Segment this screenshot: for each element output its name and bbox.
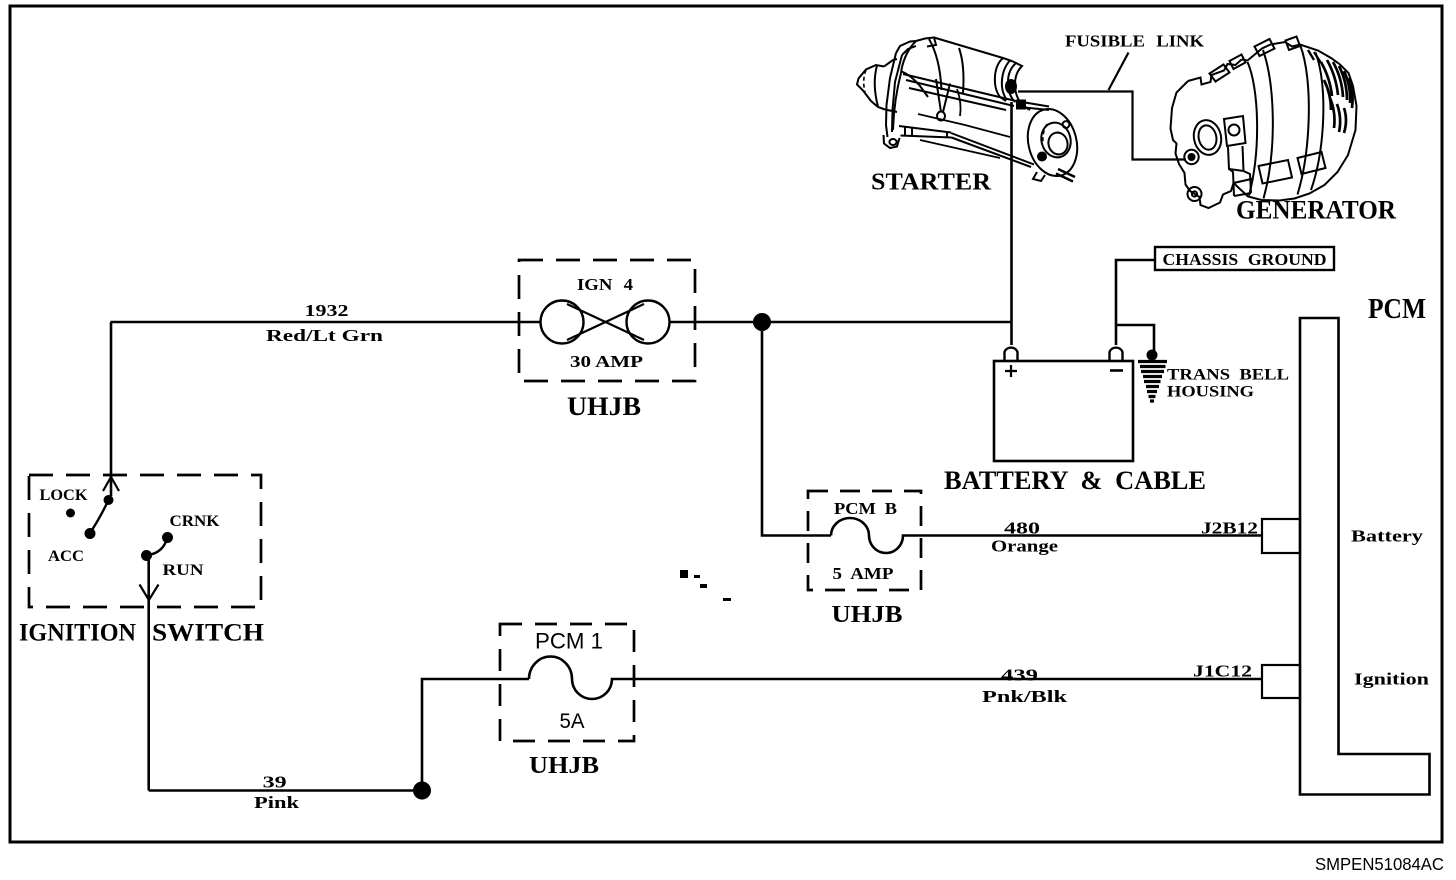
ignition switch: lever from wire to ACC contact: [85, 500, 109, 539]
label TRANS BELL HOUSING: [1167, 367, 1289, 401]
ignition switch: contact dot at wire end: [104, 495, 114, 505]
svg-text:IGN 4: IGN 4: [577, 275, 634, 294]
label RUN: [163, 562, 205, 579]
svg-text:UHJB: UHJB: [832, 602, 903, 628]
svg-text:5 AMP: 5 AMP: [833, 564, 894, 583]
svg-text:STARTER: STARTER: [871, 170, 992, 196]
ground symbol: trans bell housing: [1138, 350, 1167, 402]
svg-text:UHJB: UHJB: [529, 753, 599, 779]
svg-text:TRANS BELL: TRANS BELL: [1167, 367, 1289, 384]
label BATTERY & CABLE: [944, 466, 1206, 495]
wire: battery positive up to starter: [1010, 102, 1013, 345]
label STARTER: [871, 170, 992, 196]
fuse IGN 4 element: two circles with crossed tangent lines: [541, 301, 670, 344]
label Pnk/Blk: [982, 687, 1068, 706]
svg-text:Battery: Battery: [1351, 527, 1424, 546]
svg-text:30 AMP: 30 AMP: [570, 352, 643, 371]
svg-text:IGNITION: IGNITION: [19, 620, 136, 647]
label ACC: [48, 548, 84, 565]
wire: switch output down with arrow: [140, 556, 159, 791]
label J1C12: [1193, 662, 1252, 681]
label 39: [263, 773, 287, 792]
fuse PCM 1 dashed box: [500, 624, 634, 741]
label J2B12: [1201, 519, 1258, 538]
label 30 AMP: [570, 352, 643, 371]
label GENERATOR: [1236, 196, 1396, 225]
node: junction dot on main wire: [753, 313, 771, 331]
wire: main feed 1932 horizontal from ignition switch to IGN4 fuse: [111, 321, 541, 324]
svg-text:SWITCH: SWITCH: [152, 620, 265, 647]
leader line from FUSIBLE LINK text: [1109, 53, 1129, 91]
label Red/Lt Grn: [266, 326, 384, 345]
node: junction dot bottom: [413, 782, 431, 800]
label 439: [1001, 666, 1038, 685]
svg-text:FUSIBLE LINK: FUSIBLE LINK: [1065, 32, 1205, 51]
wire: ignition switch feed vertical: [110, 322, 113, 496]
label UHJB (PCM 1): [529, 753, 599, 779]
label FUSIBLE LINK: [1065, 32, 1205, 51]
wire: battery negative to chassis ground label: [1116, 260, 1154, 345]
label 1932: [305, 301, 349, 320]
generator illustration: [1171, 37, 1357, 209]
fuse IGN 4 dashed box UHJB: [519, 260, 695, 381]
svg-text:J2B12: J2B12: [1201, 519, 1258, 538]
svg-text:439: 439: [1001, 666, 1038, 685]
ignition switch dashed box: [29, 475, 261, 607]
stray scan marks: [680, 570, 731, 601]
svg-text:1932: 1932: [305, 301, 349, 320]
fuse PCM 1 element S-curve: [529, 657, 1263, 700]
connector J1C12 pin box: [1262, 665, 1300, 698]
svg-text:RUN: RUN: [163, 562, 205, 579]
battery negative terminal: [1110, 348, 1124, 371]
svg-text:Orange: Orange: [991, 537, 1059, 556]
wire: 39 Pink horizontal at bottom: [149, 789, 422, 792]
connector J2B12 pin box: [1262, 519, 1300, 553]
svg-text:CHASSIS GROUND: CHASSIS GROUND: [1163, 250, 1327, 269]
svg-text:PCM 1: PCM 1: [535, 629, 603, 654]
label Pink: [254, 793, 300, 812]
label PCM B: [834, 499, 897, 518]
svg-text:PCM B: PCM B: [834, 499, 897, 518]
svg-text:ACC: ACC: [48, 548, 84, 565]
svg-text:UHJB: UHJB: [567, 392, 641, 421]
wire: junction up to PCM 1 fuse: [422, 679, 529, 791]
ignition switch: arrow into switch (pointing up): [103, 477, 119, 491]
wire: branch to trans bell housing ground: [1116, 325, 1154, 356]
svg-text:Pnk/Blk: Pnk/Blk: [982, 687, 1068, 706]
label IGN 4: [577, 275, 634, 294]
svg-text:Red/Lt Grn: Red/Lt Grn: [266, 326, 384, 345]
starter illustration: [857, 38, 1084, 182]
label PCM: [1368, 294, 1426, 325]
label Orange: [991, 537, 1059, 556]
svg-text:Ignition: Ignition: [1354, 670, 1430, 689]
chassis ground label box: [1155, 247, 1334, 270]
svg-text:SMPEN51084AC: SMPEN51084AC: [1315, 854, 1444, 874]
fuse PCM B dashed box: [808, 491, 921, 590]
svg-text:5A: 5A: [560, 710, 585, 733]
svg-text:CRNK: CRNK: [170, 513, 221, 530]
wire: fusible link from starter to generator: [1018, 92, 1186, 160]
svg-text:Pink: Pink: [254, 793, 300, 812]
wire: IGN4 fuse output to battery positive vertical line: [670, 321, 1012, 324]
svg-text:LOCK: LOCK: [40, 487, 89, 504]
label CRNK: [170, 513, 221, 530]
label PCM 1: [535, 629, 603, 654]
svg-text:39: 39: [263, 773, 287, 792]
PCM connector L-shaped bar: [1300, 318, 1430, 795]
label Battery (PCM pin): [1351, 527, 1424, 546]
fuse PCM B element S-curve: [831, 518, 1263, 553]
label UHJB (PCM B): [832, 602, 903, 628]
label 5 AMP: [833, 564, 894, 583]
label UHJB (IGN4): [567, 392, 641, 421]
label IGNITION SWITCH: [19, 620, 265, 647]
svg-text:480: 480: [1004, 519, 1040, 538]
label Ignition (PCM pin): [1354, 670, 1430, 689]
wire: junction down to PCM B fuse: [762, 322, 831, 536]
label LOCK: [40, 487, 89, 504]
battery box: [994, 361, 1133, 461]
ignition switch: CRNK contact dot and curve to RUN contact: [141, 532, 173, 561]
svg-text:BATTERY & CABLE: BATTERY & CABLE: [944, 466, 1206, 495]
svg-text:PCM: PCM: [1368, 294, 1426, 325]
svg-text:HOUSING: HOUSING: [1167, 384, 1255, 401]
label 480: [1004, 519, 1040, 538]
label 5A: [560, 710, 585, 733]
ignition switch: LOCK position dot: [66, 509, 75, 518]
battery positive terminal: [1005, 348, 1018, 377]
svg-text:J1C12: J1C12: [1193, 662, 1252, 681]
label SMPEN51084AC: [1315, 854, 1444, 874]
